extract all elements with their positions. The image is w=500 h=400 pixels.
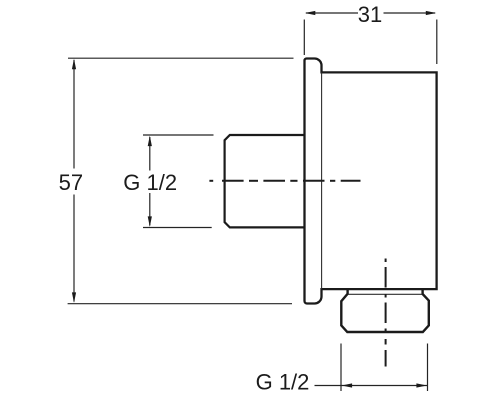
svg-text:31: 31	[358, 2, 382, 27]
vertical centerline of outlet	[385, 259, 387, 367]
dimension G 1/2 outlet: arrowheads	[342, 383, 353, 387]
dimension G 1/2 inlet: extension lines	[143, 134, 214, 136]
dimension G 1/2 outlet: dimension line	[342, 385, 428, 387]
dimension G 1/2 outlet: leader line	[315, 385, 341, 387]
dimension G 1/2 inlet: dimension line	[149, 137, 151, 171]
inlet fitting G 1/2	[225, 135, 304, 227]
dimension G 1/2 inlet: arrowheads	[148, 136, 152, 147]
horizontal centerline	[209, 180, 360, 182]
dimension 31: extension lines	[303, 20, 305, 56]
flange-body junction line	[321, 72, 323, 289]
wall flange plate outline	[305, 58, 437, 303]
dimension 57: extension lines	[68, 57, 294, 59]
outlet nut top face line	[348, 293, 422, 295]
svg-text:57: 57	[59, 170, 83, 195]
dimension 57: arrowheads	[72, 59, 76, 70]
svg-text:G 1/2: G 1/2	[256, 370, 310, 395]
dimension 57: dimension line	[73, 60, 75, 169]
dimension 31: dimension line	[306, 12, 358, 14]
dimension 31: arrowheads	[305, 11, 316, 15]
svg-text:G 1/2: G 1/2	[123, 170, 177, 195]
outlet nut	[341, 289, 429, 332]
dimension G 1/2 outlet: extension lines	[340, 344, 342, 392]
